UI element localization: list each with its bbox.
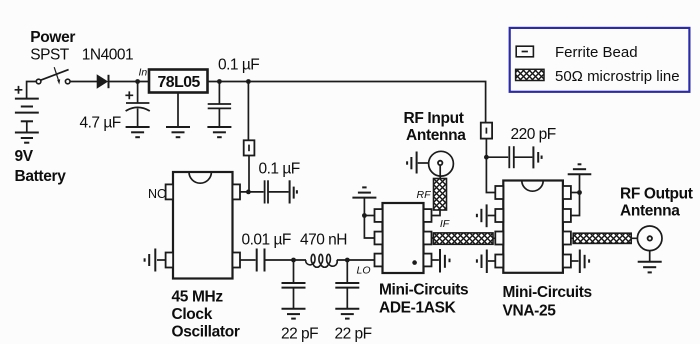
ferrite bead FB1 (over oscillator) xyxy=(247,82,249,141)
pin P3 IF in xyxy=(495,232,503,245)
RF input antenna jack xyxy=(429,151,454,176)
oscillator U2 45 MHz xyxy=(173,172,233,279)
svg-text:Mini-Circuits: Mini-Circuits xyxy=(379,282,468,299)
ground (above mixer, inverted) xyxy=(352,187,376,197)
capacitor C5 22pF xyxy=(293,260,295,283)
ground (C6) xyxy=(335,309,359,319)
svg-text:VNA-25: VNA-25 xyxy=(503,303,557,320)
svg-text:45 MHz: 45 MHz xyxy=(172,289,224,306)
capacitor C3 0.1uF (decoupling, series to ground right) xyxy=(265,180,268,203)
pin L2 xyxy=(375,232,383,245)
svg-text:RF Output: RF Output xyxy=(620,185,693,202)
pin P2 xyxy=(495,209,503,222)
legend box xyxy=(510,28,690,92)
svg-text:220 pF: 220 pF xyxy=(511,126,556,143)
node oscillator Vcc junction xyxy=(246,190,251,195)
capacitor C6 22pF xyxy=(346,260,348,283)
ground (C1) xyxy=(126,127,150,137)
svg-text:Mini-Circuits: Mini-Circuits xyxy=(503,284,592,301)
wire battery to switch xyxy=(27,82,37,99)
pin Vcc (top-right) xyxy=(233,184,241,199)
svg-text:Antenna: Antenna xyxy=(406,127,466,144)
svg-text:0.1 µF: 0.1 µF xyxy=(218,57,259,74)
amplifier U4 VNA-25 xyxy=(503,181,563,273)
node mixer gnd junction xyxy=(362,213,367,218)
svg-text:SPST: SPST xyxy=(30,47,70,64)
node bead junction xyxy=(246,79,251,84)
regulator U1 78L05 xyxy=(149,70,208,93)
ground (C2) xyxy=(207,127,231,137)
node LC junction 2 xyxy=(345,258,350,263)
pin GND (bottom-left) xyxy=(166,253,174,268)
legend ferrite bead symbol xyxy=(516,46,533,57)
capacitor C7 220pF xyxy=(509,146,514,168)
wire IF strip stubs xyxy=(432,237,496,239)
pin R1v xyxy=(563,186,571,199)
wire 78L05 ground pin xyxy=(177,93,179,128)
svg-text:22 pF: 22 pF xyxy=(281,326,318,343)
mixer U3 ADE-1ASK xyxy=(383,203,424,273)
svg-text:IF: IF xyxy=(440,218,450,230)
node 220pF junction xyxy=(484,155,489,160)
svg-text:1N4001: 1N4001 xyxy=(82,47,133,64)
ground (VNA R4, sideways right) xyxy=(571,260,579,262)
pin R4v xyxy=(563,255,571,268)
ground (oscillator, sideways left) xyxy=(157,259,166,261)
ground (VNA P4, sideways left) xyxy=(488,260,495,262)
capacitor C1 4.7uF plus sign xyxy=(125,91,133,99)
ground (battery) xyxy=(15,133,39,143)
capacitor C4 0.01uF xyxy=(240,259,256,261)
svg-text:Ferrite Bead: Ferrite Bead xyxy=(555,44,638,61)
svg-text:0.1 µF: 0.1 µF xyxy=(259,161,300,178)
svg-text:Battery: Battery xyxy=(15,168,67,185)
svg-text:0.01 µF: 0.01 µF xyxy=(242,232,291,249)
pin L1 xyxy=(375,209,383,222)
ground (C5) xyxy=(282,309,306,319)
pin L3 LO xyxy=(375,254,383,267)
ground (VNA P2, sideways left) xyxy=(488,215,496,217)
svg-text:Antenna: Antenna xyxy=(620,202,680,219)
wire switch to diode xyxy=(70,81,97,83)
wire 78L05 output rail xyxy=(208,82,486,123)
pin P1 xyxy=(495,186,503,199)
microstrip line (RF, vertical) xyxy=(434,179,447,211)
ground (78L05) xyxy=(166,127,190,137)
svg-text:NC: NC xyxy=(148,187,166,201)
svg-text:78L05: 78L05 xyxy=(158,74,201,91)
diode D1 1N4001 xyxy=(97,75,107,88)
microstrip line (output, horizontal) xyxy=(571,237,573,239)
svg-text:Oscillator: Oscillator xyxy=(172,324,240,341)
pin R2 IF xyxy=(424,232,432,245)
switch SW1 SPST xyxy=(36,79,70,84)
wire junction to 220pF xyxy=(486,156,508,158)
wire RF strip to mixer pin R1 xyxy=(432,210,441,216)
svg-text:In: In xyxy=(139,67,148,79)
RF output antenna jack xyxy=(631,237,647,239)
node output junction xyxy=(217,79,222,84)
pin R3v out xyxy=(563,232,571,245)
battery B1 xyxy=(15,99,39,122)
capacitor C1 4.7uF xyxy=(137,82,139,104)
wire diode to regulator xyxy=(109,81,150,83)
pin 1 dot (mixer) xyxy=(412,260,417,265)
svg-text:RF Input: RF Input xyxy=(404,110,464,127)
pin R2v xyxy=(563,209,571,222)
ground (RF output) xyxy=(638,262,662,273)
inductor L1 470nH xyxy=(306,254,337,267)
wire inductor to mixer LO xyxy=(337,259,375,261)
ground (above VNA, inverted) xyxy=(568,164,592,174)
pin P4 xyxy=(495,255,503,268)
svg-text:50Ω microstrip line: 50Ω microstrip line xyxy=(555,68,680,85)
svg-text:4.7 µF: 4.7 µF xyxy=(80,115,121,132)
node In junction xyxy=(135,79,140,84)
svg-text:LO: LO xyxy=(357,264,371,276)
wire bead FB2 branch xyxy=(481,123,492,139)
wire VNA R1 to top ground bus xyxy=(571,192,580,194)
ground (C7, sideways right) xyxy=(533,146,541,168)
svg-text:22 pF: 22 pF xyxy=(335,326,372,343)
svg-text:Power: Power xyxy=(30,29,75,46)
legend microstrip symbol xyxy=(516,69,544,80)
svg-text:Clock: Clock xyxy=(172,306,213,323)
svg-text:ADE-1ASK: ADE-1ASK xyxy=(379,300,457,317)
microstrip line (IF, horizontal) xyxy=(434,233,494,244)
pin R1 RF xyxy=(424,209,432,222)
pin OUT (bottom-right) xyxy=(233,253,241,268)
svg-text:470 nH: 470 nH xyxy=(300,232,347,249)
pin R3 xyxy=(424,254,432,267)
battery B1 plus sign xyxy=(15,86,23,94)
ground (RF input, sideways left) xyxy=(407,152,417,174)
svg-text:9V: 9V xyxy=(15,148,34,165)
ground (mixer R3, sideways right) xyxy=(432,259,439,261)
ground (C3, sideways right) xyxy=(290,180,297,203)
pin NC (top-left) xyxy=(166,184,174,199)
capacitor C2 0.1uF xyxy=(218,82,220,105)
svg-text:RF: RF xyxy=(417,189,432,201)
node LC junction 1 xyxy=(291,258,296,263)
